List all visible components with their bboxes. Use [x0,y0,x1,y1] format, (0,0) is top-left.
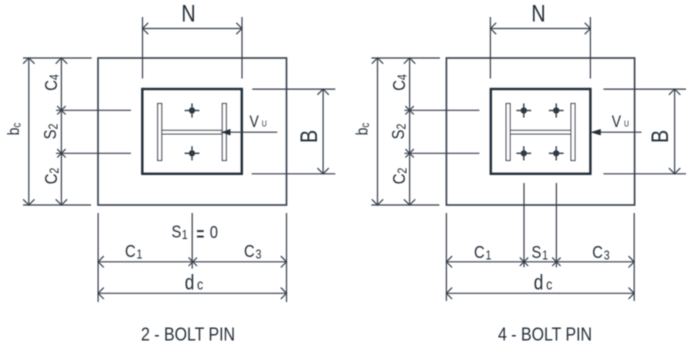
dimension B (left): extension line top [252,88,335,90]
dimension B (right): extension line bottom [603,173,686,175]
dimension C1/S1/C3 (right): arrow right [629,256,635,267]
dimension C1/C3 (left): centre tick [189,258,197,266]
dimension N (right): extension lines [489,17,491,79]
dimension C1/C3 (left): arrow left [98,256,104,267]
C4/S2/C2 (right): tick at second bolt row [405,149,413,157]
bolt top (left diagram) [185,103,200,117]
bolt bottom-right (right diagram) [549,146,564,160]
dimension B (left): arrow down [317,168,328,174]
dimension B (left): dimension line [322,89,324,174]
dimension C1/S1/C3 (right): arrow left [446,256,452,267]
dimension C1/S1/C3 (right): dimension line [446,261,634,263]
bottom extension line right (right diagram) [633,213,635,301]
C4/S2/C2 (left): tick at second bolt row [57,149,65,157]
column right flange (left) [222,104,226,161]
dimension N (left): extension lines [142,17,144,79]
dimension d_c (right): arrow left [446,288,452,299]
extension line top edge (left) [23,57,92,59]
force V_U (right): filled arrowhead [590,129,601,135]
dimension B (right): arrow down [669,168,680,174]
extension line top edge (right) [371,57,440,59]
dimension b_c (right): arrow up [372,58,383,64]
force V_U (right): line [600,131,642,133]
base plate (left) [142,89,242,174]
svg-text:N: N [181,0,195,27]
C4/S2/C2 (right): tick at first bolt row [405,106,413,114]
dimension d_c (right): dimension line [446,292,634,294]
bolt bottom (left diagram) [185,146,200,160]
base plate (right) [491,89,591,174]
extension line second bolt row (left) [56,152,131,154]
anchor centre line S1=0 (left diagram) [191,213,193,269]
dimension b_c (left): dimension line [28,58,30,205]
dimension N (left): arrow left [143,23,149,34]
dimension d_c (left): arrow left [98,288,104,299]
dimension C1/C3 (left): dimension line [98,261,286,263]
chained dimension line C4/S2/C2 (right) [409,58,411,205]
extension line bottom edge (right) [371,204,439,206]
dimension d_c (left): arrow right [281,288,287,299]
bottom extension line left (left diagram) [97,213,99,302]
svg-text:0: 0 [210,223,218,243]
svg-text:N: N [531,0,545,27]
C4/S2/C2 (left): arrow down [56,199,67,205]
svg-text:4 - BOLT PIN: 4 - BOLT PIN [498,323,592,344]
svg-text:2 - BOLT PIN: 2 - BOLT PIN [141,323,235,344]
bolt bottom-left (right diagram) [516,146,531,160]
dimension B (left): extension line bottom [252,173,336,175]
svg-text:B: B [646,130,673,143]
C4/S2/C2 (left): tick at first bolt row [57,106,65,114]
extension line second bolt row (right) [404,152,479,154]
dimension B (right): dimension line [674,89,676,174]
concrete pedestal outline (left) [98,58,287,205]
dimension b_c (left): arrow down [23,199,34,205]
dimension b_c (left): arrow up [23,58,34,64]
concrete pedestal outline (right) [446,58,634,205]
bolt top-left (right diagram) [516,103,531,117]
dimension B (left): arrow up [317,89,328,95]
C4/S2/C2 (right): arrow down [404,199,415,205]
column right flange (right) [571,104,575,161]
column web (left) [161,130,223,134]
dimension N (right): dimension line [490,28,590,30]
dimension B (right): extension line top [603,88,686,90]
dimension b_c (right): arrow down [372,199,383,205]
bolt column line right (right diagram) [555,183,557,267]
force V_U (left): filled arrowhead [220,129,231,135]
column left flange (right) [506,104,510,161]
bottom extension line left (right diagram) [445,213,447,301]
column left flange (left) [158,104,162,161]
extension line first bolt row (right) [404,109,479,111]
bottom extension line right (left diagram) [286,213,288,302]
dimension C1/S1/C3 (right): tick at left bolt column [520,258,528,266]
C4/S2/C2 (left): arrow up [56,58,67,64]
dimension N (right): arrow right [585,23,591,34]
dimension C1/S1/C3 (right): tick at right bolt column [552,258,560,266]
dimension d_c (right): arrow right [629,288,635,299]
extension line bottom edge (left) [23,204,91,206]
equals sign of S1 = 0 [197,231,204,237]
bolt column line left (right diagram) [523,183,525,267]
dimension N (left): dimension line [143,28,243,30]
bolt top-right (right diagram) [549,103,564,117]
extension line first bolt row (left) [56,109,131,111]
svg-text:B: B [295,130,322,143]
C4/S2/C2 (right): arrow up [404,58,415,64]
chained dimension line C4/S2/C2 (left) [60,58,62,205]
dimension N (right): arrow left [490,23,496,34]
dimension d_c (left): dimension line [98,292,286,294]
dimension B (right): arrow up [669,89,680,95]
dimension b_c (right): dimension line [377,58,379,205]
force V_U (left): line [229,131,277,133]
dimension C1/C3 (left): arrow right [281,256,287,267]
dimension N (left): arrow right [236,23,242,34]
column web (right) [510,130,571,134]
